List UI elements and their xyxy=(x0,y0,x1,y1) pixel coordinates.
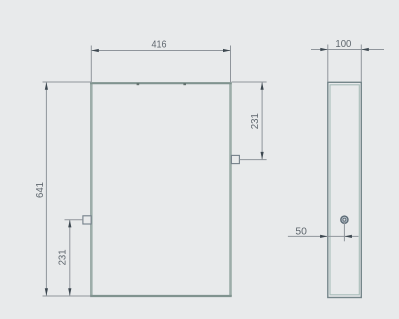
dimension 641 extension line bottom xyxy=(43,295,92,297)
dimension 100 extension line right xyxy=(360,45,362,82)
front view panel outline xyxy=(90,83,232,296)
dimension 100 arrow right xyxy=(361,48,369,51)
dimension 416 extension line right xyxy=(230,46,232,83)
left tab on panel xyxy=(83,216,91,224)
panel bottom edge xyxy=(90,295,232,297)
screw hole circle outer xyxy=(341,216,348,223)
dimension 641 line xyxy=(45,82,47,296)
dimension 641 extension line top xyxy=(43,81,92,83)
dimension 416 extension line left xyxy=(90,46,92,83)
side view inner wall line xyxy=(330,85,359,295)
tick mark right on top edge xyxy=(183,83,186,85)
svg-text:416: 416 xyxy=(152,40,167,51)
dimension 416 line xyxy=(91,50,230,52)
dimension 231 right arrow top xyxy=(261,82,264,90)
dimension 100 line xyxy=(311,49,384,51)
dimension 231 right extension line bottom xyxy=(240,159,267,161)
dimension 416 arrow left xyxy=(91,49,99,52)
dimension 50 line xyxy=(288,235,359,237)
right tab on panel xyxy=(231,155,239,163)
dimension 50 arrow left xyxy=(320,235,328,238)
dimension 641 arrow top xyxy=(45,82,48,90)
panel right edge xyxy=(229,83,232,296)
panel left edge xyxy=(90,83,93,296)
panel top edge xyxy=(90,82,232,84)
svg-text:641: 641 xyxy=(35,182,46,198)
dimension 641 arrow bottom xyxy=(45,288,48,296)
dimension 100 extension line left xyxy=(327,45,329,82)
dimension 100 arrow left xyxy=(320,48,328,51)
dimension 50 arrow right xyxy=(344,235,352,238)
dimension 231 left extension line xyxy=(65,219,83,221)
dimension 231 right arrow bottom xyxy=(261,152,264,160)
side view outer outline xyxy=(328,82,362,297)
svg-text:231: 231 xyxy=(58,249,69,265)
dimension 50 extension line from circle xyxy=(343,221,345,241)
dimension 231 left arrow bottom xyxy=(68,288,71,296)
dimension 231 left arrow top xyxy=(68,220,71,228)
svg-text:231: 231 xyxy=(250,113,261,129)
tick mark left on top edge xyxy=(137,83,140,85)
dimension 231 right extension line top xyxy=(232,81,267,83)
screw hole circle inner xyxy=(343,218,346,221)
svg-text:50: 50 xyxy=(295,226,307,237)
dimension 231 left line xyxy=(69,220,71,296)
svg-text:100: 100 xyxy=(335,39,351,50)
dimension 416 arrow right xyxy=(223,49,231,52)
dimension 231 right line xyxy=(261,82,263,160)
